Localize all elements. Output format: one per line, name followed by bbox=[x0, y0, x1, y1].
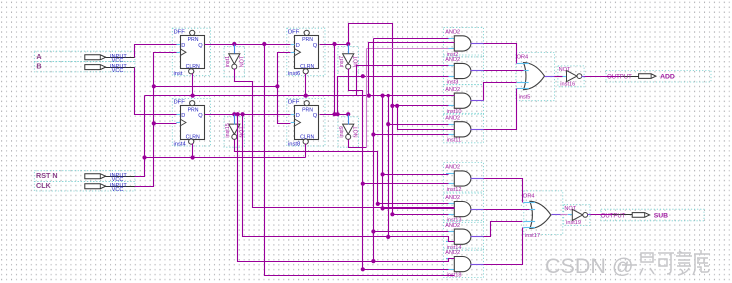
wire OR4-A out net bbox=[555, 76, 563, 78]
and-gate U5 (AND2) bbox=[444, 27, 484, 57]
svg-text:DFF: DFF bbox=[288, 100, 300, 106]
junction Q2 to AND inst10 in2 bbox=[390, 104, 394, 108]
svg-text:CLRN: CLRN bbox=[186, 64, 200, 70]
wire AND6 out stub bbox=[471, 209, 484, 211]
wire NOT4 input stub bbox=[348, 115, 350, 125]
svg-text:PRN: PRN bbox=[302, 37, 313, 43]
or-gate U9 (OR4) bbox=[516, 52, 555, 100]
wire AND3 out net bbox=[484, 83, 517, 101]
svg-text:NOT: NOT bbox=[564, 206, 576, 212]
svg-text:D: D bbox=[181, 43, 185, 49]
inverter U1 (NOT) bbox=[224, 47, 246, 77]
wire DFF1.Q to DFF2.D bbox=[205, 44, 291, 46]
and-gate U12 (AND2) bbox=[444, 193, 484, 223]
junction CLK low bbox=[152, 121, 156, 125]
svg-text:PRN: PRN bbox=[188, 108, 199, 114]
junction Q2 branch bbox=[332, 42, 336, 46]
svg-text:CLRN: CLRN bbox=[300, 135, 314, 141]
wire NOT-A out net bbox=[585, 76, 620, 78]
junction RST corner bbox=[142, 155, 146, 159]
junction Q3 NOT3 tap bbox=[232, 112, 236, 116]
junction DFF3 CLRN bbox=[191, 155, 195, 159]
svg-text:NOT: NOT bbox=[240, 55, 246, 67]
wire Q3 to AND7.in2 bbox=[243, 115, 455, 242]
watermark CSDN bbox=[545, 254, 634, 278]
svg-text:inst4: inst4 bbox=[174, 141, 187, 147]
svg-text:AND2: AND2 bbox=[445, 115, 460, 121]
svg-text:DFF: DFF bbox=[174, 100, 186, 106]
wire NOT1 out bbox=[235, 69, 455, 208]
junction V388 top bbox=[387, 94, 390, 97]
and-gate U13 (AND2) bbox=[444, 221, 484, 251]
junction V382 G5.in1 bbox=[381, 172, 385, 176]
wire feeder G1.in1 bbox=[374, 38, 449, 40]
wire OR4-A out stub bbox=[545, 76, 555, 78]
svg-text:PRN: PRN bbox=[188, 37, 199, 43]
wire OR4-B out net bbox=[561, 214, 568, 216]
junction DFF1 CLRN bbox=[191, 94, 195, 98]
svg-text:AND2: AND2 bbox=[445, 223, 460, 229]
junction V397 bbox=[395, 104, 399, 108]
svg-text:NOT: NOT bbox=[559, 67, 571, 73]
wire V373 to AND7.in1 bbox=[374, 231, 449, 233]
svg-text:PRN: PRN bbox=[302, 108, 313, 114]
wire V334 link bbox=[334, 45, 336, 115]
D flip-flop inst4 (DFF3) bbox=[172, 99, 210, 148]
svg-text:DFF: DFF bbox=[174, 29, 186, 35]
svg-text:Q: Q bbox=[198, 43, 203, 49]
wire AND7 out net bbox=[484, 222, 523, 237]
junction V388 G4.in1 bbox=[386, 122, 390, 126]
svg-text:inst9: inst9 bbox=[339, 126, 345, 137]
input pin A bbox=[34, 51, 135, 64]
and-gate U8 (AND2) bbox=[444, 113, 484, 143]
wire G5.in1 branch bbox=[383, 174, 449, 176]
wire NOT3 out bbox=[235, 140, 449, 204]
wire AND2 out stub bbox=[471, 70, 484, 72]
junction Q2 NOT2 tap bbox=[346, 42, 350, 46]
svg-text:DFF: DFF bbox=[288, 29, 300, 35]
wire AND1 out net bbox=[484, 44, 517, 64]
svg-text:Q: Q bbox=[313, 113, 318, 119]
wire V373 to AND4.in2 bbox=[374, 134, 449, 136]
wire DFF3 CLRN drop bbox=[192, 144, 194, 158]
wire feeder edge G4 bbox=[398, 106, 455, 130]
svg-text:AND2: AND2 bbox=[445, 57, 460, 63]
svg-text:D: D bbox=[296, 113, 300, 119]
svg-text:inst17: inst17 bbox=[525, 233, 540, 239]
svg-text:inst8: inst8 bbox=[288, 141, 300, 147]
svg-text:inst6: inst6 bbox=[288, 71, 300, 77]
inverter U4 (NOT) bbox=[338, 117, 360, 147]
svg-text:CSDN @: CSDN @ bbox=[545, 254, 634, 278]
svg-text:inst: inst bbox=[174, 71, 183, 77]
junction V388 G7.in2 bbox=[386, 235, 390, 239]
junction V382 end bbox=[381, 206, 385, 210]
inverter U3 (NOT) bbox=[224, 117, 246, 147]
wire NOT4 out bbox=[349, 140, 367, 148]
wire V373 long bbox=[373, 39, 375, 262]
svg-text:CLRN: CLRN bbox=[300, 64, 314, 70]
junction Q3 branch a bbox=[236, 112, 240, 116]
svg-text:OR4: OR4 bbox=[523, 193, 535, 199]
svg-text:AND2: AND2 bbox=[445, 87, 460, 93]
wire NOT3 input stub bbox=[234, 115, 236, 125]
wire NOT2 out bbox=[349, 69, 449, 270]
input pin B bbox=[34, 62, 135, 74]
wire CLK riser to DFF2/DFF4 bbox=[278, 53, 291, 124]
svg-text:D: D bbox=[181, 113, 185, 119]
input pin RST bbox=[34, 171, 135, 183]
svg-text:Q: Q bbox=[198, 113, 203, 119]
junction Q3 branch b bbox=[241, 112, 245, 116]
wire NOT2 input stub bbox=[348, 45, 350, 54]
wire feeder edge G1 bbox=[369, 43, 455, 96]
svg-text:AND2: AND2 bbox=[445, 165, 460, 171]
svg-text:CLRN: CLRN bbox=[186, 135, 200, 141]
junction NOT2 net end bbox=[361, 267, 365, 271]
junction CLK riser bbox=[275, 84, 279, 88]
output pin SUB bbox=[601, 209, 704, 221]
wire feeder G2.in1 bbox=[357, 66, 449, 96]
svg-text:Q: Q bbox=[313, 43, 318, 49]
wire AND4 out stub bbox=[471, 129, 484, 131]
svg-text:RST N: RST N bbox=[36, 171, 58, 180]
watermark CJK glyphs bbox=[622, 250, 710, 275]
wire CLK branch mid bbox=[154, 86, 278, 88]
wire DFF1 CLRN drop bbox=[192, 74, 194, 96]
svg-text:AND2: AND2 bbox=[445, 30, 460, 36]
svg-text:inst7: inst7 bbox=[339, 56, 345, 67]
wire AND5 out stub bbox=[471, 178, 484, 180]
wire Q4 to AND2.in2 bbox=[338, 77, 449, 115]
svg-text:inst10: inst10 bbox=[447, 109, 462, 115]
wire NOT4 net riser bbox=[366, 49, 368, 148]
junction NOT3 net G6.in1 bbox=[376, 202, 380, 206]
wire NOT2 to AND5.in2 bbox=[363, 183, 449, 185]
junction Q1 branch bbox=[262, 42, 266, 46]
junction V373 G7.in1 bbox=[371, 229, 375, 233]
junction V373 G4.in2 bbox=[371, 132, 375, 136]
D flip-flop inst6 (DFF2) bbox=[287, 28, 325, 77]
wire NOT-B out net bbox=[591, 214, 613, 216]
svg-text:OR4: OR4 bbox=[517, 55, 529, 61]
junction DFF2 CLRN bbox=[304, 94, 308, 98]
and-gate U6 (AND2) bbox=[444, 55, 484, 85]
wire Q2 to AND3.in2 bbox=[393, 105, 449, 107]
wire feeder AND4.in1 bbox=[388, 96, 390, 237]
wire AND5 out net bbox=[484, 179, 523, 203]
junction Q4 riser bbox=[336, 112, 340, 116]
junction NOT2 to AND5.in2 bbox=[361, 182, 365, 186]
wire RST to bottom CLRN bbox=[145, 157, 306, 159]
wire feeder G5.in1 bbox=[383, 96, 455, 209]
junction V382 on long net bbox=[381, 94, 385, 98]
svg-text:inst1: inst1 bbox=[225, 56, 231, 67]
wire AND3 out stub bbox=[471, 100, 484, 102]
wire RST vertical bbox=[135, 96, 145, 177]
wire AND2 out net bbox=[484, 70, 524, 72]
junction Q4 link bbox=[332, 112, 336, 116]
and-gate U14 (AND2) bbox=[444, 248, 484, 278]
svg-text:VCC: VCC bbox=[112, 187, 124, 193]
svg-text:D: D bbox=[296, 43, 300, 49]
svg-text:B: B bbox=[36, 62, 41, 71]
wire Q3 to AND8.in1 bbox=[238, 115, 455, 262]
wire Q2 over-route bbox=[349, 24, 449, 215]
svg-text:OUTPUT: OUTPUT bbox=[607, 75, 632, 81]
inverter U2 (NOT) bbox=[338, 47, 360, 77]
wire OR4-B out stub bbox=[552, 214, 561, 216]
output pin ADD bbox=[606, 70, 711, 82]
D flip-flop inst8 (DFF4) bbox=[287, 99, 325, 148]
junction NOT2 net cross bbox=[361, 74, 365, 78]
junction Q2 net end bbox=[390, 212, 394, 216]
svg-text:CLK: CLK bbox=[36, 181, 52, 190]
wire AND4.in1 branch bbox=[389, 124, 449, 126]
svg-text:AND2: AND2 bbox=[445, 250, 460, 256]
junction Q1 NOT1 tap bbox=[232, 42, 236, 46]
junction V373 G8.in1 bbox=[371, 259, 375, 263]
wire AND1 out stub bbox=[471, 43, 484, 45]
D flip-flop inst (DFF1) bbox=[172, 28, 210, 77]
wire AND7 out stub bbox=[471, 236, 484, 238]
wire CLK vertical bbox=[135, 53, 177, 187]
svg-text:inst5: inst5 bbox=[519, 94, 531, 100]
wire AND4 out net bbox=[484, 89, 517, 130]
input pin CLK bbox=[34, 181, 135, 193]
svg-text:AND2: AND2 bbox=[445, 195, 460, 201]
svg-text:SUB: SUB bbox=[654, 213, 668, 220]
wire AND8 out stub bbox=[471, 264, 484, 266]
junction CLK mid bbox=[152, 84, 156, 88]
svg-text:inst12: inst12 bbox=[447, 187, 462, 193]
svg-text:inst19: inst19 bbox=[566, 220, 581, 226]
svg-text:VCC: VCC bbox=[112, 68, 124, 74]
wire edge line y42.9 bbox=[368, 42, 370, 44]
wire DFF3.Q to DFF4.D bbox=[205, 114, 291, 116]
svg-text:NOT: NOT bbox=[354, 126, 360, 138]
wire NOT-A out stub bbox=[582, 76, 585, 78]
and-gate U11 (AND2) bbox=[444, 163, 484, 193]
wire AND8 out net bbox=[484, 228, 523, 265]
wire DFF2.Q to NOT2 bbox=[320, 44, 349, 46]
junction Q4 NOT4 tap bbox=[346, 112, 350, 116]
wire A to DFF1.D bbox=[135, 45, 177, 58]
wire Q1 drop long bbox=[265, 45, 455, 276]
wire CLK to DFF3 clock bbox=[154, 123, 177, 125]
wire DFF2 CLRN drop bbox=[305, 74, 307, 96]
svg-text:inst16: inst16 bbox=[560, 81, 575, 87]
svg-text:inst15: inst15 bbox=[225, 123, 231, 137]
wire AND6 out net bbox=[484, 209, 530, 211]
wire NOT-B out stub bbox=[588, 214, 591, 216]
junction V368 on long net bbox=[367, 94, 371, 98]
or-gate U15 (OR4) bbox=[523, 191, 563, 239]
svg-text:ADD: ADD bbox=[660, 74, 675, 81]
svg-text:inst11: inst11 bbox=[447, 138, 462, 144]
inverter U10 (NOT) bbox=[558, 66, 584, 87]
wire DFF4.Q branch bbox=[320, 114, 349, 116]
wire NOT1 input stub bbox=[234, 45, 236, 54]
wire NOT4 to AND1.in2 bbox=[367, 48, 449, 50]
wire DFF4 CLRN drop bbox=[305, 144, 307, 158]
inverter U16 (NOT) bbox=[564, 205, 590, 226]
and-gate U7 (AND2) bbox=[444, 85, 484, 115]
svg-text:A: A bbox=[36, 52, 41, 61]
wire long net to AND inst10 bbox=[145, 95, 455, 97]
wire B to DFF3.D bbox=[135, 68, 177, 115]
